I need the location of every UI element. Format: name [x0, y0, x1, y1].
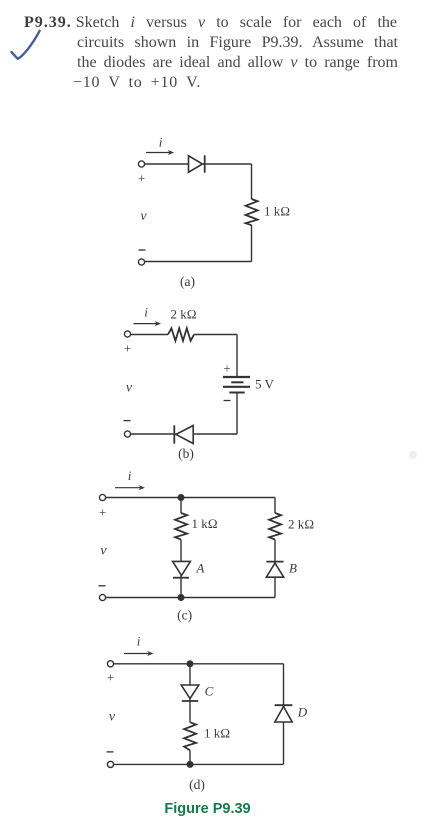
- svg-text:v: v: [140, 209, 147, 224]
- svg-text:2 kΩ: 2 kΩ: [171, 307, 197, 322]
- svg-text:i: i: [144, 305, 148, 320]
- svg-text:(d): (d): [189, 777, 205, 792]
- svg-text:C: C: [205, 684, 214, 699]
- svg-text:1 kΩ: 1 kΩ: [192, 516, 218, 531]
- svg-text:1 kΩ: 1 kΩ: [204, 726, 230, 741]
- svg-text:i: i: [137, 634, 141, 649]
- svg-text:(c): (c): [177, 608, 192, 623]
- svg-text:D: D: [297, 705, 308, 720]
- svg-text:+: +: [138, 171, 145, 186]
- svg-text:(a): (a): [180, 274, 195, 289]
- svg-text:v: v: [100, 544, 107, 559]
- svg-text:i: i: [159, 135, 163, 150]
- svg-text:+: +: [107, 670, 114, 685]
- svg-text:+: +: [223, 361, 230, 376]
- svg-text:(b): (b): [178, 446, 194, 461]
- svg-text:A: A: [195, 561, 204, 576]
- svg-text:2 kΩ: 2 kΩ: [288, 517, 314, 532]
- svg-text:v: v: [126, 381, 133, 396]
- svg-text:Figure P9.39: Figure P9.39: [164, 801, 250, 817]
- svg-text:i: i: [128, 468, 132, 483]
- svg-text:B: B: [289, 561, 297, 576]
- svg-text:+: +: [124, 341, 131, 356]
- svg-text:5 V: 5 V: [255, 377, 275, 392]
- svg-text:1 kΩ: 1 kΩ: [264, 204, 290, 219]
- svg-text:+: +: [99, 505, 106, 520]
- svg-text:v: v: [109, 710, 116, 725]
